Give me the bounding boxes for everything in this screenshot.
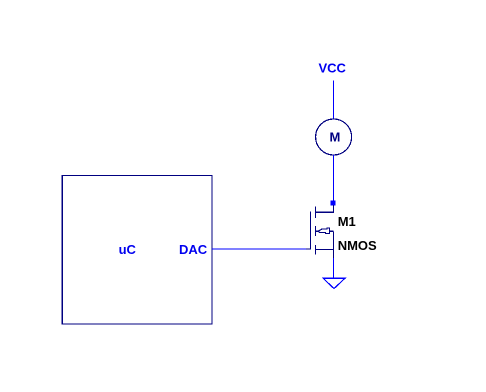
channel bar top	[314, 207, 316, 218]
body terminal vertical	[332, 231, 334, 249]
wire VCC to motor	[332, 81, 334, 120]
svg-text:M1: M1	[338, 214, 356, 229]
svg-text:M: M	[330, 129, 341, 144]
svg-text:VCC: VCC	[319, 60, 347, 75]
uC box	[62, 175, 212, 324]
transistor M1 NMOS symbol	[306, 205, 333, 258]
junction square at drain	[330, 200, 335, 205]
svg-text:NMOS: NMOS	[338, 238, 377, 253]
wire DAC to gate	[212, 248, 306, 250]
wire motor to drain node	[332, 155, 334, 201]
svg-text:uC: uC	[119, 242, 137, 257]
source lead	[315, 250, 333, 258]
gate pin lead	[306, 211, 310, 249]
channel bar bottom	[314, 245, 316, 255]
body arrow connector	[330, 230, 334, 232]
svg-text:DAC: DAC	[179, 242, 208, 257]
ground symbol	[323, 278, 345, 288]
drain lead	[315, 205, 333, 212]
channel bar middle	[314, 226, 316, 236]
motor M circle	[316, 119, 352, 155]
wire source to ground	[332, 258, 334, 278]
body arrow	[315, 228, 329, 233]
